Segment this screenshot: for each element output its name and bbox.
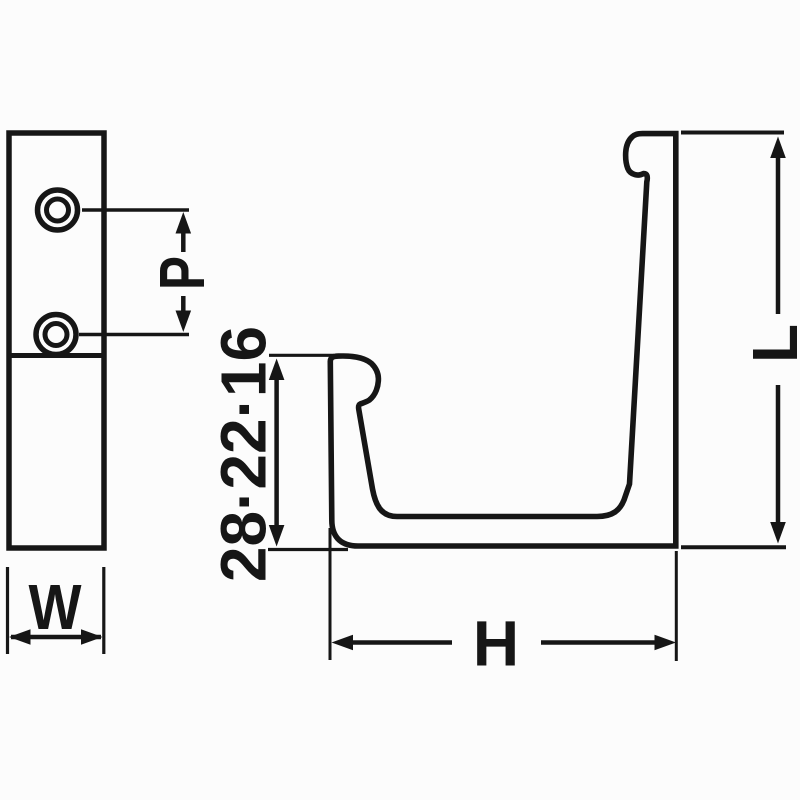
W dimension line [11, 635, 101, 640]
svg-text:28·22·16: 28·22·16 [208, 326, 280, 582]
dimension P line upper segment [181, 231, 186, 252]
L dimension line upper segment [776, 156, 781, 314]
arrowhead P up [176, 212, 192, 234]
28-22-16 extension line top [269, 354, 334, 357]
arrowhead 28-22-16 up [269, 359, 285, 381]
arrowhead W right [81, 629, 103, 645]
leader line bottom hole [79, 333, 189, 337]
H extension line left [329, 528, 332, 660]
svg-text:P: P [146, 256, 218, 290]
hook profile outline [330, 134, 676, 546]
L extension line top [681, 131, 784, 135]
28-22-16 dimension line [274, 377, 279, 528]
svg-text:H: H [473, 608, 519, 680]
H dimension line left segment [350, 640, 452, 645]
screw hole top outer [38, 190, 78, 230]
arrowhead L up [770, 137, 786, 159]
arrowhead P down [176, 311, 192, 333]
28-22-16 extension line bottom [268, 548, 348, 551]
screw hole bottom inner [45, 324, 67, 346]
W extension line right [102, 567, 105, 654]
plate divider line [9, 353, 104, 358]
arrowhead H left [332, 635, 354, 651]
leader line top hole [82, 208, 189, 212]
svg-text:W: W [29, 571, 83, 643]
plate front view outline [9, 133, 104, 548]
screw hole bottom outer [36, 315, 76, 355]
svg-text:L: L [739, 324, 800, 363]
L extension line bottom [681, 545, 786, 549]
dimension P line lower segment [181, 296, 186, 313]
arrowhead 28-22-16 down [269, 525, 285, 547]
arrowhead L down [770, 522, 786, 544]
W extension line left [6, 567, 9, 654]
H dimension line right segment [541, 640, 657, 645]
screw hole top inner [47, 199, 69, 221]
L dimension line lower segment [776, 385, 781, 524]
arrowhead W left [9, 629, 31, 645]
arrowhead H right [655, 635, 677, 651]
H extension line right [675, 551, 678, 661]
